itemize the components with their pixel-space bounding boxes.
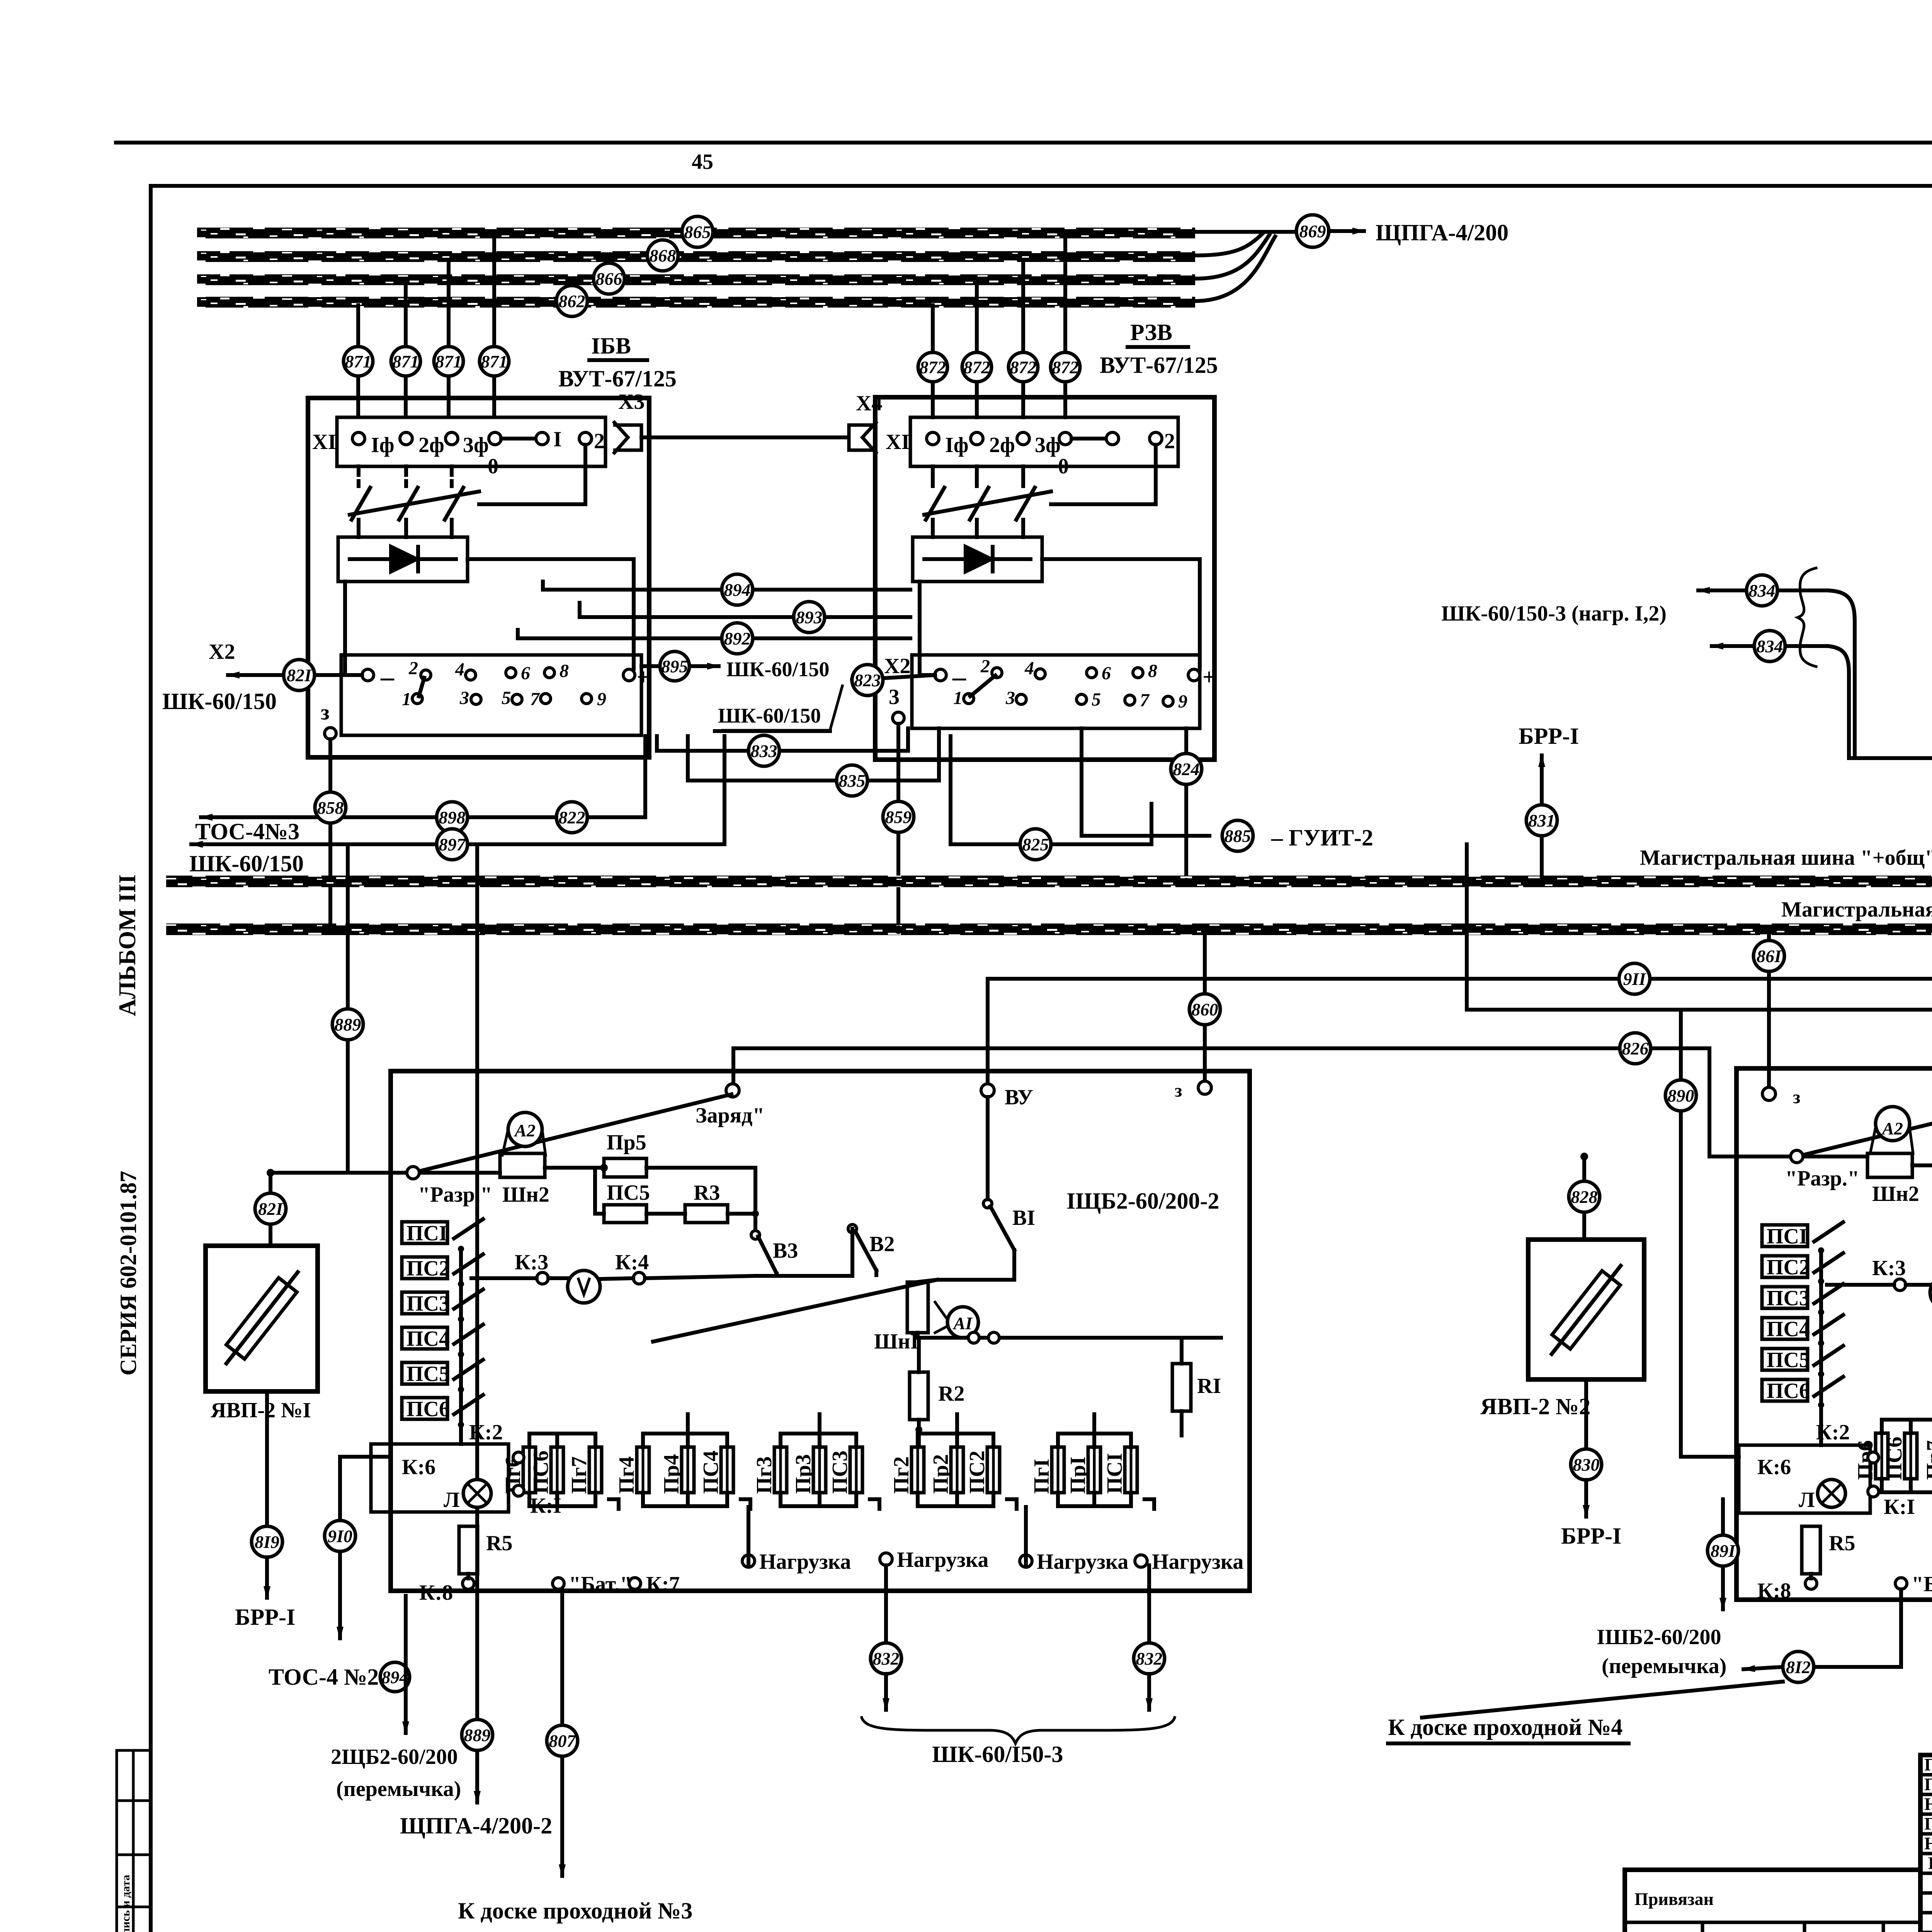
svg-text:Шн2: Шн2 bbox=[502, 1183, 549, 1207]
fuse ПС3 left panel bbox=[828, 1434, 862, 1506]
svg-text:А2: А2 bbox=[1881, 1119, 1903, 1138]
svg-text:К:2: К:2 bbox=[469, 1420, 503, 1444]
wire label circle 892 bbox=[722, 623, 753, 654]
wire label circle 823 bbox=[852, 665, 883, 696]
wire label circle 859 bbox=[883, 801, 914, 832]
wire label circle 890 bbox=[1665, 1080, 1696, 1111]
svg-text:Нач.осн: Нач.осн bbox=[1924, 1794, 1932, 1814]
wire 833 from X2 terminals bbox=[657, 728, 908, 751]
wire K3 K4 row bbox=[471, 1276, 755, 1279]
svg-text:R2: R2 bbox=[938, 1382, 964, 1406]
terminal strip X1 of RZV bbox=[910, 417, 1178, 466]
wire label circle 821 bbox=[269, 1173, 272, 1246]
fuse Пр4 left panel bbox=[660, 1434, 694, 1506]
wire 825 horizontal bbox=[951, 736, 1151, 844]
svg-text:6: 6 bbox=[521, 663, 530, 684]
wire label circle 858 bbox=[315, 792, 346, 823]
svg-text:ІШБ2-60/200: ІШБ2-60/200 bbox=[1597, 1625, 1721, 1649]
X2 link 2-1 bbox=[419, 678, 424, 696]
svg-text:ПгІ: ПгІ bbox=[1030, 1459, 1054, 1494]
X2 plus terminal bbox=[623, 669, 635, 681]
svg-text:9І0: 9І0 bbox=[328, 1526, 352, 1546]
drop from discharge node with circle 889a bbox=[346, 844, 350, 1173]
wire label circle 825 bbox=[1020, 829, 1051, 860]
wire label circle 872 a bbox=[918, 352, 947, 382]
svg-text:Пр5: Пр5 bbox=[607, 1131, 646, 1155]
wire to TOS-4 N2 with circle 910 bbox=[338, 1457, 342, 1638]
svg-text:К доске проходной №3: К доске проходной №3 bbox=[458, 1898, 692, 1923]
wire Shn2 to Pr5 bbox=[545, 1166, 595, 1170]
wire to BRR-I with circle 831 bbox=[1540, 755, 1544, 876]
wire label circle 911 bbox=[1619, 963, 1650, 994]
svg-text:3ф: 3ф bbox=[463, 433, 489, 457]
svg-text:7: 7 bbox=[530, 689, 540, 709]
svg-text:R5: R5 bbox=[486, 1531, 512, 1555]
selector switch ПС2 bbox=[402, 1254, 483, 1287]
wire to BRR-I with circle 819 bbox=[265, 1391, 269, 1526]
terminal 3f bbox=[1017, 432, 1029, 445]
svg-text:Пг4: Пг4 bbox=[615, 1456, 639, 1494]
magistral bus +obshch bbox=[166, 876, 1932, 887]
svg-text:К:8: К:8 bbox=[1757, 1579, 1791, 1603]
svg-text:894: 894 bbox=[724, 580, 751, 600]
wire V2 V3 joining row bbox=[755, 1229, 852, 1276]
wire Shn2 to Pr5 right bbox=[1912, 1163, 1932, 1167]
svg-text:ХІ: ХІ bbox=[886, 430, 910, 454]
wire rectifier output plus bbox=[468, 559, 634, 669]
svg-text:ПСІ: ПСІ bbox=[406, 1221, 447, 1245]
wire terminal2 to breaker RZV bbox=[1051, 445, 1156, 504]
terminal 1f bbox=[352, 432, 365, 445]
svg-text:Х2: Х2 bbox=[209, 640, 235, 664]
X2 minus terminal bbox=[362, 669, 374, 681]
resistor R5 right bbox=[1802, 1526, 1820, 1574]
node z earth right panel bbox=[1762, 1087, 1776, 1100]
wire label circle 828 bbox=[1582, 1156, 1586, 1240]
selector switch ПСІ bbox=[402, 1219, 483, 1252]
svg-text:3: 3 bbox=[459, 688, 469, 708]
svg-text:Іф: Іф bbox=[945, 433, 969, 457]
X2 terminal 9 bbox=[582, 694, 592, 704]
selector switch ПС6 right bbox=[1762, 1377, 1843, 1408]
phase tap wire 1BB 0 bbox=[356, 305, 360, 417]
svg-text:Пг7: Пг7 bbox=[567, 1456, 591, 1494]
wire Zaryad diagonal right panel bbox=[1797, 1093, 1932, 1156]
wire X3 to X4 bbox=[641, 435, 848, 439]
selector switch ПС6 bbox=[402, 1395, 483, 1428]
junction dot block2 earth on bus bbox=[894, 925, 903, 934]
phase tap wire 1BB 2f bbox=[447, 260, 451, 417]
svg-text:ВУТ-67/125: ВУТ-67/125 bbox=[558, 366, 677, 391]
fuse Пг2 left panel bbox=[889, 1434, 924, 1506]
svg-text:5: 5 bbox=[502, 688, 511, 708]
svg-text:871: 871 bbox=[393, 352, 419, 371]
svg-text:К:6: К:6 bbox=[1757, 1455, 1791, 1479]
wire 823 into RZV minus bbox=[852, 675, 935, 680]
terminal strip X1 bbox=[337, 417, 605, 466]
svg-text:R5: R5 bbox=[1829, 1531, 1855, 1555]
output wire 834 lower bbox=[1712, 644, 1828, 648]
svg-text:І: І bbox=[553, 427, 562, 451]
svg-text:Заряд": Заряд" bbox=[696, 1104, 764, 1128]
svg-text:К доске проходной №4: К доске проходной №4 bbox=[1388, 1714, 1622, 1740]
svg-text:СЕРИЯ 602-0101.87: СЕРИЯ 602-0101.87 bbox=[116, 1171, 141, 1376]
svg-text:В3: В3 bbox=[773, 1239, 798, 1263]
wire label circle 897 bbox=[437, 829, 468, 860]
svg-text:ПСІ: ПСІ bbox=[1103, 1453, 1127, 1494]
junction dot 831 wire on +obshch bus bbox=[1537, 878, 1546, 886]
fuse Пр7 right panel bbox=[1922, 1420, 1932, 1492]
lamp L right bbox=[1818, 1480, 1845, 1507]
svg-text:9ІІ: 9ІІ bbox=[1623, 969, 1647, 989]
selector stack PS1-PS6 right bbox=[1762, 1222, 1843, 1445]
svg-text:866: 866 bbox=[596, 269, 622, 289]
fuse Пг6 left panel bbox=[501, 1434, 536, 1506]
wire label circle 898 bbox=[437, 802, 468, 833]
svg-text:ПрІ: ПрІ bbox=[1066, 1457, 1090, 1494]
svg-text:871: 871 bbox=[481, 352, 508, 371]
phase tap wire RZV 2f bbox=[1021, 260, 1025, 417]
X2 link 2-1 RZV bbox=[970, 675, 995, 696]
voltmeter bbox=[568, 1270, 600, 1303]
svg-text:+: + bbox=[1202, 664, 1216, 690]
svg-text:R3: R3 bbox=[694, 1181, 720, 1205]
signature table grid bbox=[1920, 1755, 1932, 1932]
svg-text:0: 0 bbox=[488, 454, 498, 478]
wire label circle 831 bbox=[1526, 805, 1557, 836]
terminal 3f bbox=[446, 432, 458, 445]
X2 terminal 8 bbox=[544, 668, 554, 678]
header top line bbox=[116, 141, 1932, 145]
svg-text:Шн2: Шн2 bbox=[1872, 1182, 1919, 1206]
node Zaryad bbox=[726, 1084, 739, 1097]
phase tap wire RZV 3f bbox=[975, 283, 979, 417]
fuse Пр2 left panel bbox=[929, 1434, 963, 1506]
AC feeder bus bar 4 bbox=[197, 297, 1195, 308]
svg-text:2ф: 2ф bbox=[418, 433, 444, 457]
svg-text:4: 4 bbox=[1024, 658, 1034, 679]
fuse cabinet YaVP-2 N2 bbox=[1528, 1240, 1644, 1379]
svg-text:Пров.: Пров. bbox=[1924, 1774, 1932, 1794]
wire Razr right panel bbox=[1709, 1155, 1867, 1158]
wire 835 from X2 terminals lower bbox=[688, 728, 939, 781]
leader line to K doske prokhodnoy N4 bbox=[1422, 1682, 1783, 1718]
fuse Пг4 left panel bbox=[615, 1434, 649, 1506]
svg-text:893: 893 bbox=[796, 607, 823, 627]
svg-text:822: 822 bbox=[559, 808, 585, 827]
svg-text:Привязан: Привязан bbox=[1634, 1889, 1714, 1909]
wire label circle 894 bbox=[722, 574, 753, 605]
wire label circle 821w bbox=[284, 660, 315, 690]
wire to BRR-I with circle 830 bbox=[1584, 1379, 1588, 1448]
terminal I bbox=[536, 432, 548, 445]
link 0 to I bbox=[1071, 437, 1106, 440]
svg-text:Нач.отд: Нач.отд bbox=[1924, 1833, 1932, 1853]
svg-text:826: 826 bbox=[1622, 1039, 1649, 1058]
wire label circle 871 a bbox=[344, 347, 373, 376]
wires 834 join collector bus bbox=[1828, 590, 1855, 758]
svg-text:ПС4: ПС4 bbox=[1767, 1317, 1810, 1341]
load terminal 3 bbox=[1020, 1555, 1032, 1567]
wire 895 to ShK-60/150 mid bbox=[641, 664, 674, 668]
svg-text:БРР-І: БРР-І bbox=[1561, 1523, 1621, 1549]
ammeter A2 bbox=[508, 1112, 542, 1146]
svg-text:872: 872 bbox=[920, 357, 946, 377]
svg-text:2: 2 bbox=[980, 656, 990, 677]
load terminal 1 bbox=[742, 1555, 755, 1567]
ground wire of block1 with circle 858 bbox=[328, 739, 332, 924]
svg-text:889: 889 bbox=[464, 1725, 491, 1745]
bus bundle curves to output bbox=[1195, 233, 1263, 255]
svg-text:869: 869 bbox=[1299, 221, 1326, 241]
svg-text:82І: 82І bbox=[287, 665, 312, 685]
X2 terminal 9 bbox=[1163, 696, 1173, 706]
title block outer bbox=[1920, 1755, 1932, 1932]
battery panel 2ShchB2-60/200-2 enclosure bbox=[1736, 1068, 1932, 1600]
terminal 2f bbox=[400, 432, 412, 445]
jumper wire with circle 891 bbox=[1721, 1499, 1725, 1609]
svg-text:ПС3: ПС3 bbox=[828, 1451, 852, 1494]
wire to GUIT-2 with circle 885 bbox=[1082, 728, 1209, 836]
wire label circle 833w bbox=[748, 735, 779, 766]
battery panel 1ShchB2-60/200-2 enclosure bbox=[391, 1071, 1250, 1591]
svg-text:з: з bbox=[321, 701, 330, 724]
svg-text:ШК-60/І50-3: ШК-60/І50-3 bbox=[932, 1742, 1063, 1767]
svg-text:Пр7: Пр7 bbox=[1922, 1440, 1932, 1480]
selector switch ПС5 bbox=[402, 1360, 483, 1393]
svg-text:832: 832 bbox=[873, 1649, 900, 1668]
svg-text:859: 859 bbox=[885, 807, 912, 827]
svg-text:В2: В2 bbox=[869, 1232, 895, 1256]
load terminal 2 bbox=[880, 1553, 892, 1565]
svg-text:ПС2: ПС2 bbox=[1767, 1255, 1810, 1279]
svg-text:К:7: К:7 bbox=[646, 1572, 680, 1596]
resistor R5 bbox=[459, 1526, 478, 1574]
svg-text:2: 2 bbox=[594, 429, 605, 453]
node VU bbox=[981, 1084, 994, 1097]
svg-text:830: 830 bbox=[1573, 1455, 1600, 1475]
svg-text:Нагрузка: Нагрузка bbox=[759, 1550, 851, 1574]
svg-text:8І2: 8І2 bbox=[1786, 1657, 1811, 1677]
selector switch ПС3 right bbox=[1762, 1284, 1843, 1315]
svg-text:ПС3: ПС3 bbox=[1767, 1286, 1810, 1310]
svg-text:–: – bbox=[380, 662, 395, 692]
svg-text:ПС6: ПС6 bbox=[406, 1397, 450, 1421]
rectifier diode box RZV bbox=[913, 537, 1042, 582]
X2 plus terminal RZV bbox=[1188, 669, 1200, 681]
svg-text:6: 6 bbox=[1102, 663, 1111, 684]
svg-text:"Бат.": "Бат." bbox=[569, 1572, 632, 1596]
fuse Пр3 left panel bbox=[791, 1434, 826, 1506]
ammeter A2 right bbox=[1876, 1107, 1910, 1141]
svg-text:823: 823 bbox=[854, 670, 881, 690]
svg-text:Пр2: Пр2 bbox=[929, 1454, 953, 1494]
ammeter A1 bbox=[947, 1307, 978, 1338]
wires inside from R2 and fuse bus to loads bbox=[748, 1507, 1026, 1565]
svg-text:ПС3: ПС3 bbox=[406, 1292, 450, 1316]
svg-text:АІ: АІ bbox=[952, 1313, 973, 1333]
wire label circle 822 bbox=[556, 802, 587, 833]
collector wire below Shn1 bbox=[918, 1333, 1221, 1338]
svg-text:ПС5: ПС5 bbox=[406, 1362, 450, 1386]
svg-text:868: 868 bbox=[650, 246, 676, 265]
phase tap wire RZV 1f bbox=[1063, 236, 1067, 417]
wire terminal2 to breaker bbox=[479, 445, 585, 504]
fuse ПС2 left panel bbox=[965, 1434, 1000, 1506]
svg-text:Пг2: Пг2 bbox=[889, 1456, 913, 1494]
selector switch ПС2 right bbox=[1762, 1253, 1843, 1284]
svg-text:ПС5: ПС5 bbox=[607, 1181, 650, 1205]
wire label circle 894b bbox=[380, 1662, 410, 1692]
svg-text:ШК-60/150: ШК-60/150 bbox=[718, 704, 821, 727]
arrow to ShchPGA-4/200 bbox=[1329, 229, 1364, 233]
magistral bus protective earth bbox=[166, 923, 1932, 935]
earth drop to left panel with circle 860 bbox=[1203, 935, 1207, 1081]
wire label circle 862 on bus 4 bbox=[556, 286, 587, 316]
svg-text:2ф: 2ф bbox=[989, 433, 1015, 457]
shunt Shn2 right bbox=[1867, 1153, 1912, 1177]
frame top border bbox=[151, 184, 1932, 188]
svg-text:860: 860 bbox=[1192, 1000, 1218, 1019]
svg-text:РЗВ: РЗВ bbox=[1130, 320, 1172, 345]
AC feeder bus bar 2 bbox=[197, 251, 1195, 262]
terminal strip X2 of RZV bbox=[912, 655, 1200, 728]
svg-text:ПС4: ПС4 bbox=[699, 1451, 723, 1494]
junction dot 860 wire on earth bus bbox=[1201, 925, 1209, 934]
AC feeder bus bar 3 bbox=[197, 274, 1195, 285]
svg-text:825: 825 bbox=[1022, 835, 1049, 854]
terminal 0 bbox=[1059, 432, 1071, 445]
junction dot block1 earth on bus bbox=[326, 925, 335, 934]
voltmeter right bbox=[1930, 1276, 1932, 1309]
svg-text:3: 3 bbox=[1005, 688, 1015, 708]
svg-text:ВІ: ВІ bbox=[1012, 1206, 1035, 1230]
svg-text:К:8: К:8 bbox=[419, 1581, 453, 1605]
drop to right panel K6 with circle 890 bbox=[1681, 1010, 1739, 1457]
battery terminal Bat right bbox=[1895, 1578, 1907, 1589]
svg-text:ПС2: ПС2 bbox=[406, 1257, 450, 1281]
X2 terminal 6 bbox=[1087, 668, 1097, 678]
svg-text:з: з bbox=[1175, 1080, 1182, 1101]
wire label circle 826 bbox=[1620, 1033, 1651, 1064]
svg-text:RІ: RІ bbox=[1197, 1374, 1221, 1398]
fuse Пг3 left panel bbox=[752, 1434, 787, 1506]
selector switch ПС4 bbox=[402, 1325, 483, 1357]
wire label circle 871 c bbox=[434, 347, 463, 376]
svg-text:ІЩБ2-60/200-2: ІЩБ2-60/200-2 bbox=[1066, 1188, 1219, 1214]
svg-text:45: 45 bbox=[692, 150, 713, 174]
terminal 2f bbox=[971, 432, 983, 445]
phase tap wire 1BB 1f bbox=[492, 236, 496, 417]
svg-text:К:І: К:І bbox=[530, 1494, 561, 1518]
svg-text:871: 871 bbox=[345, 352, 372, 371]
svg-text:871: 871 bbox=[435, 352, 462, 371]
rectifier unit 1BV VUT-67/125 enclosure bbox=[308, 398, 649, 757]
svg-text:Магистральная шина защитного з: Магистральная шина защитного заземления bbox=[1781, 898, 1932, 922]
svg-text:872: 872 bbox=[1052, 357, 1079, 377]
wire label circle 868 on bus 2 bbox=[647, 240, 678, 271]
svg-text:898: 898 bbox=[439, 808, 466, 827]
svg-text:А2: А2 bbox=[514, 1121, 536, 1140]
link 0 to I bbox=[501, 437, 536, 440]
wire to ShchPGA output bbox=[1195, 230, 1296, 234]
wire label circle 885 bbox=[1222, 820, 1253, 851]
svg-text:4: 4 bbox=[455, 659, 464, 680]
svg-text:ПС4: ПС4 bbox=[406, 1327, 450, 1351]
svg-text:897: 897 bbox=[439, 835, 466, 854]
fuse ПрІ left panel bbox=[1066, 1434, 1100, 1506]
svg-text:Л: Л bbox=[1799, 1488, 1815, 1512]
wire label circle 872 d bbox=[1051, 352, 1080, 382]
svg-text:828: 828 bbox=[1571, 1187, 1598, 1207]
svg-text:2ЩБ2-60/200: 2ЩБ2-60/200 bbox=[331, 1745, 458, 1769]
fuse Пг7 left panel bbox=[567, 1434, 602, 1506]
svg-text:890: 890 bbox=[1668, 1086, 1694, 1105]
junction dot 824 wire on +obshch bus bbox=[1182, 878, 1190, 886]
wire rectifier output plus RZV bbox=[1042, 559, 1200, 669]
svg-text:872: 872 bbox=[964, 357, 990, 377]
lamp box K6 right bbox=[1739, 1445, 1870, 1513]
fuse group link wires bbox=[529, 1432, 595, 1435]
wire Razr horizontal bbox=[270, 1171, 500, 1175]
long drop to ShchPGA with circle 889 bbox=[475, 844, 479, 1803]
circuit breaker poles bbox=[350, 466, 479, 537]
battery terminal Bat bbox=[553, 1578, 564, 1589]
fuse row bbox=[501, 1414, 1154, 1509]
fuse Пр6 right panel bbox=[1854, 1420, 1888, 1492]
svg-text:3ф: 3ф bbox=[1035, 433, 1061, 457]
X2 terminal 6 bbox=[506, 668, 516, 678]
svg-text:з: з bbox=[1793, 1087, 1800, 1107]
wire to K doske N4 with circle 812 bbox=[1816, 1589, 1901, 1667]
svg-text:9: 9 bbox=[1178, 691, 1187, 712]
panel collector bus bbox=[1851, 756, 1932, 760]
svg-text:865: 865 bbox=[684, 222, 711, 242]
switch V2 bbox=[848, 1225, 857, 1233]
terminal 0 bbox=[489, 432, 501, 445]
svg-text:834: 834 bbox=[1749, 581, 1776, 600]
svg-text:835: 835 bbox=[839, 771, 866, 791]
svg-text:ПС2: ПС2 bbox=[965, 1451, 989, 1494]
X2 terminal 7 bbox=[1125, 695, 1135, 705]
svg-text:К:3: К:3 bbox=[1872, 1256, 1906, 1280]
terminal strip X2 bbox=[341, 655, 641, 735]
charge wire to right panel bbox=[1467, 844, 1932, 1083]
svg-text:– ГУИТ-2: – ГУИТ-2 bbox=[1271, 825, 1373, 850]
svg-text:ІБВ: ІБВ bbox=[591, 333, 631, 359]
svg-text:Подпись и дата: Подпись и дата bbox=[119, 1875, 132, 1932]
svg-text:ВУТ-67/125: ВУТ-67/125 bbox=[1100, 352, 1218, 378]
earth drop to right panel with circle 861 bbox=[1767, 935, 1771, 1088]
svg-text:ПС6: ПС6 bbox=[1767, 1379, 1810, 1403]
svg-text:2: 2 bbox=[1164, 429, 1175, 453]
resistor R2 bbox=[910, 1372, 928, 1420]
resistor R1 bbox=[1172, 1364, 1191, 1411]
wire label circle 871 d bbox=[480, 347, 509, 376]
svg-text:0: 0 bbox=[1058, 454, 1069, 478]
svg-text:ЩПГА-4/200-2: ЩПГА-4/200-2 bbox=[400, 1813, 552, 1838]
svg-text:Нагрузка: Нагрузка bbox=[897, 1548, 988, 1572]
svg-text:Пр4: Пр4 bbox=[660, 1454, 684, 1494]
wire TOS-4 N3 with circles 898 822 bbox=[201, 736, 645, 817]
lamp L bbox=[463, 1480, 491, 1507]
svg-text:86І: 86І bbox=[1757, 946, 1782, 966]
svg-text:895: 895 bbox=[662, 656, 688, 676]
AC feeder bus bar 1 bbox=[197, 228, 1195, 238]
svg-text:82І: 82І bbox=[258, 1199, 284, 1219]
selector switch ПС4 right bbox=[1762, 1315, 1843, 1346]
selector switch ПС3 bbox=[402, 1289, 483, 1322]
